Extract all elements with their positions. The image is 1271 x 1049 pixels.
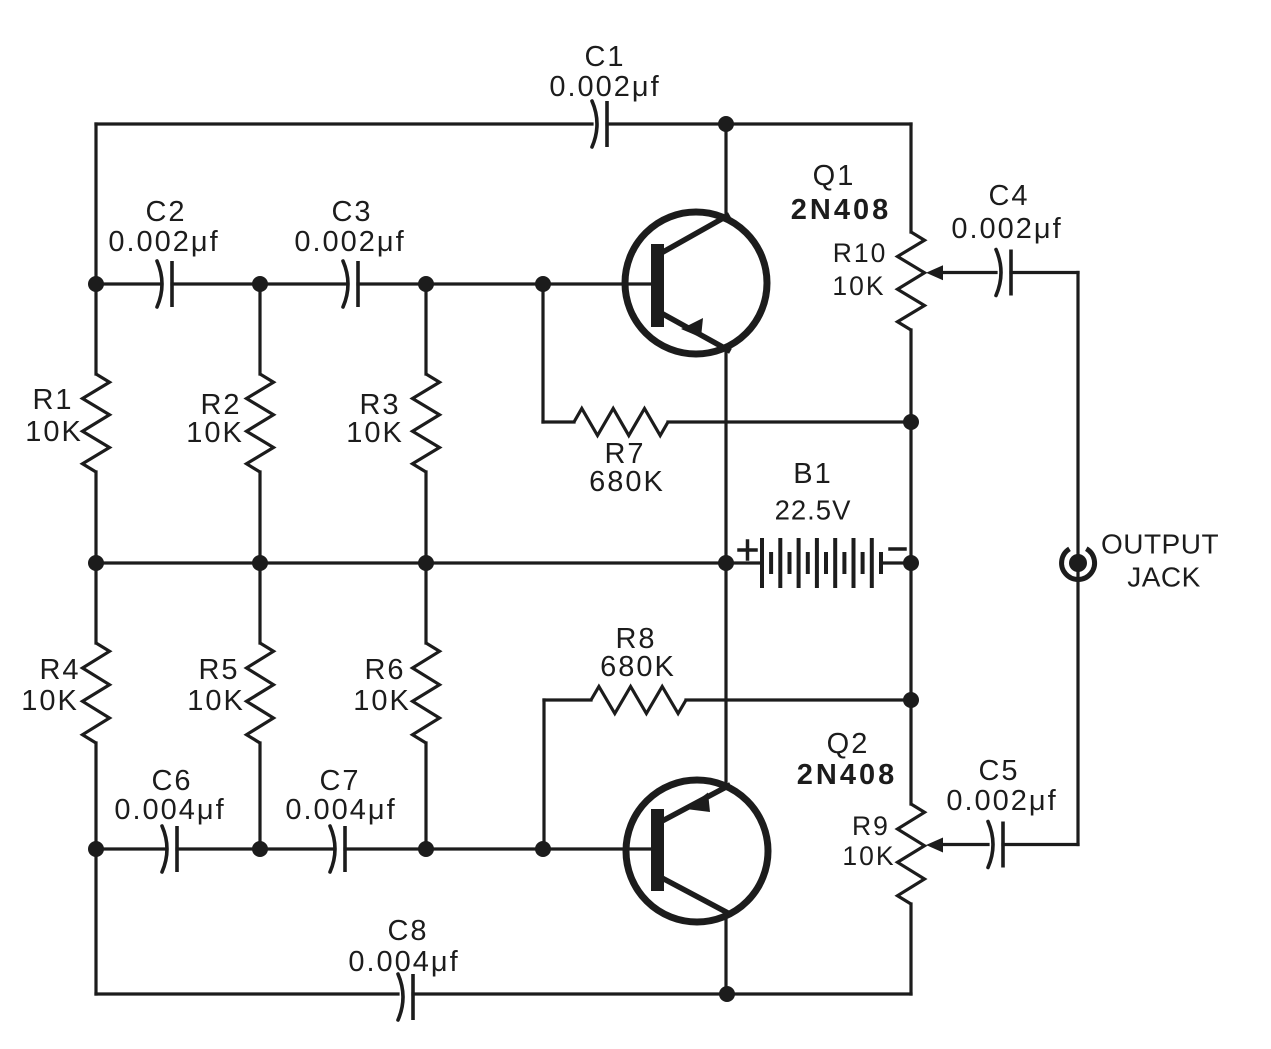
- wire: upper signal line segment 1: [96, 282, 161, 285]
- battery plus sign: [739, 541, 756, 559]
- svg-text:Q1: Q1: [813, 160, 856, 192]
- resistor R7: [574, 409, 668, 436]
- wire: top rail left segment with C1 break: [96, 122, 592, 125]
- svg-text:0.002μf: 0.002μf: [951, 213, 1062, 245]
- capacitor C8: [398, 974, 413, 1020]
- svg-text:2N408: 2N408: [791, 194, 891, 226]
- label R9: [842, 811, 895, 871]
- svg-text:B1: B1: [793, 458, 832, 490]
- svg-text:680K: 680K: [589, 466, 665, 498]
- wire: upper signal line segment 3 to Q1 base: [358, 282, 652, 285]
- svg-text:10K: 10K: [832, 271, 885, 301]
- wire: left rail (top corner to bottom corner): [94, 124, 97, 374]
- transistor Q2 (2N408 PNP): [626, 780, 768, 922]
- svg-text:C6: C6: [151, 765, 192, 797]
- svg-text:Q2: Q2: [827, 728, 870, 760]
- svg-text:0.002μf: 0.002μf: [549, 71, 660, 103]
- svg-text:R4: R4: [39, 654, 80, 686]
- svg-text:C1: C1: [584, 41, 625, 73]
- wire: upper signal line segment 2: [172, 282, 347, 285]
- svg-text:10K: 10K: [25, 416, 83, 448]
- label C4: [951, 180, 1062, 245]
- wire: output jack vertical line: [1076, 273, 1079, 845]
- battery minus sign: [890, 547, 905, 551]
- resistor R5: [247, 643, 274, 743]
- transistor Q1 (2N408 PNP): [625, 212, 767, 354]
- wire: right rail top (corner to R10): [909, 124, 912, 232]
- svg-text:R6: R6: [364, 654, 405, 686]
- svg-text:C2: C2: [145, 196, 186, 228]
- svg-text:R9: R9: [852, 811, 890, 841]
- resistor R3: [413, 374, 440, 472]
- wire: wiper to C4: [941, 271, 996, 274]
- wire: lower signal line segment 1: [96, 847, 166, 850]
- label C2: [108, 196, 219, 258]
- resistor R1: [83, 374, 110, 472]
- node: mid rail / right rail: [903, 555, 919, 571]
- svg-text:C3: C3: [331, 196, 372, 228]
- wire: Q1 emitter down through mid rail to Q2 emitter: [724, 350, 727, 786]
- resistor R2: [247, 374, 274, 472]
- svg-text:OUTPUT: OUTPUT: [1101, 529, 1219, 560]
- wire: R7 right lead to right rail: [668, 420, 911, 423]
- wire: right rail battery to R8 node: [909, 563, 912, 700]
- svg-text:C4: C4: [988, 180, 1029, 212]
- R9 wiper arrow: [926, 838, 943, 853]
- node: mid rail / R3-R6: [418, 555, 434, 571]
- capacitor C5: [988, 822, 993, 868]
- svg-text:10K: 10K: [187, 685, 245, 717]
- wire: lower signal line segment 2: [177, 847, 334, 850]
- label C1: [549, 41, 660, 103]
- svg-text:10K: 10K: [21, 685, 79, 717]
- svg-text:C5: C5: [978, 755, 1019, 787]
- svg-text:22.5V: 22.5V: [775, 495, 852, 526]
- node: upper signal / left rail: [88, 276, 104, 292]
- svg-text:0.002μf: 0.002μf: [108, 226, 219, 258]
- svg-text:680K: 680K: [600, 651, 676, 683]
- label C6: [114, 765, 225, 826]
- wire: R2 bottom lead: [258, 472, 261, 563]
- label B1: [775, 458, 852, 526]
- node: mid rail / left rail: [88, 555, 104, 571]
- label R6: [353, 654, 411, 717]
- wire: bottom rail left segment: [96, 992, 398, 995]
- wire: bottom rail right segment: [413, 992, 911, 995]
- svg-text:C7: C7: [319, 765, 360, 797]
- resistor R9 (pot): [898, 804, 925, 904]
- svg-text:10K: 10K: [346, 417, 404, 449]
- wire: right rail R10 to battery node: [909, 330, 912, 563]
- svg-text:10K: 10K: [842, 841, 895, 871]
- svg-text:C8: C8: [387, 915, 428, 947]
- svg-text:0.004μf: 0.004μf: [348, 946, 459, 978]
- label OUTPUT JACK: [1101, 529, 1219, 593]
- output jack symbol: [1062, 549, 1095, 580]
- node: upper signal / R3: [418, 276, 434, 292]
- capacitor C6: [162, 826, 167, 872]
- wire: Q2 collector to bottom rail: [724, 913, 727, 994]
- R10 wiper arrow: [926, 265, 943, 280]
- wire: left rail mid segment R1-R4: [94, 472, 97, 643]
- wire: right rail R8 node to R9: [909, 700, 912, 804]
- svg-text:R1: R1: [32, 384, 73, 416]
- resistor R10 (pot): [898, 232, 925, 330]
- wire: C5 to output jack line corner: [1003, 843, 1078, 846]
- label R3: [346, 389, 404, 449]
- wire: R6 bottom lead: [424, 743, 427, 849]
- capacitor C4: [996, 250, 1001, 296]
- wire: wiper to C5: [941, 843, 988, 846]
- wire: R5 bottom lead: [258, 743, 261, 849]
- node: lower signal / R6: [418, 841, 434, 857]
- node: lower signal / left rail: [88, 841, 104, 857]
- wire: R8 left lead: [544, 698, 591, 701]
- svg-text:2N408: 2N408: [797, 759, 897, 791]
- wire: top rail right segment: [607, 122, 911, 125]
- node: R8 / right rail: [903, 692, 919, 708]
- resistor R4: [83, 643, 110, 743]
- wire: R7 left lead: [543, 420, 574, 423]
- battery B1: [726, 538, 911, 588]
- wire: C4 to output jack line corner: [1011, 271, 1078, 274]
- label R10: [832, 238, 887, 301]
- wire: right rail R9 to bottom corner: [909, 904, 912, 994]
- label C7: [285, 765, 396, 826]
- node: upper signal / R7 branch: [535, 276, 551, 292]
- wire: R8 branch vertical to lower signal line: [542, 700, 545, 849]
- wire: mid rail left of battery: [96, 561, 726, 564]
- capacitor C7: [330, 826, 335, 872]
- capacitor C1: [592, 101, 597, 147]
- svg-text:R5: R5: [198, 654, 239, 686]
- svg-text:10K: 10K: [186, 417, 244, 449]
- svg-text:0.002μf: 0.002μf: [294, 226, 405, 258]
- wire: R2 top lead: [258, 284, 261, 374]
- wire: lower signal line segment 3 to Q2 base: [345, 847, 652, 850]
- wire: R3 top lead: [424, 284, 427, 374]
- svg-text:JACK: JACK: [1127, 562, 1201, 593]
- resistor R8: [591, 687, 686, 714]
- label R4: [21, 654, 80, 717]
- label R1: [25, 384, 83, 448]
- label R7: [589, 438, 665, 498]
- node: R7 / right rail: [903, 414, 919, 430]
- node: bottom rail / Q2 collector: [719, 986, 735, 1002]
- label C3: [294, 196, 405, 258]
- wire: R3 bottom lead: [424, 472, 427, 563]
- label C8: [348, 915, 459, 978]
- wire: R8 right lead to right rail: [686, 698, 911, 701]
- label Q2: [797, 728, 897, 791]
- node: mid rail / R2-R5: [252, 555, 268, 571]
- capacitor C3: [343, 261, 348, 307]
- node: mid rail / emitters + battery: [718, 555, 734, 571]
- node: upper signal / R2: [252, 276, 268, 292]
- label C5: [946, 755, 1057, 817]
- svg-text:0.004μf: 0.004μf: [285, 794, 396, 826]
- wire: R7 branch vertical from upper signal line: [541, 284, 544, 422]
- node: lower signal / R5: [252, 841, 268, 857]
- node: top rail / Q1 collector: [718, 116, 734, 132]
- wire: left rail lower segment: [94, 743, 97, 994]
- wire: R5 top lead: [258, 563, 261, 643]
- node: lower signal / R8 branch: [535, 841, 551, 857]
- svg-text:R10: R10: [833, 238, 888, 268]
- svg-text:0.002μf: 0.002μf: [946, 785, 1057, 817]
- svg-text:10K: 10K: [353, 685, 411, 717]
- label R8: [600, 623, 676, 683]
- wire: Q1 collector to top rail: [724, 124, 727, 216]
- capacitor C2: [157, 261, 162, 307]
- resistor R6: [413, 643, 440, 743]
- svg-text:0.004μf: 0.004μf: [114, 794, 225, 826]
- label Q1: [791, 160, 891, 226]
- label R5: [187, 654, 245, 717]
- label R2: [186, 389, 244, 449]
- wire: R6 top lead: [424, 563, 427, 643]
